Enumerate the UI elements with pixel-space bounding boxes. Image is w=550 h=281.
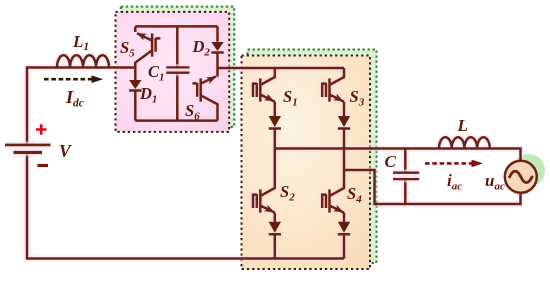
svg-text:V: V <box>59 141 72 161</box>
svg-text:L: L <box>457 116 468 135</box>
svg-text:C: C <box>385 152 397 171</box>
